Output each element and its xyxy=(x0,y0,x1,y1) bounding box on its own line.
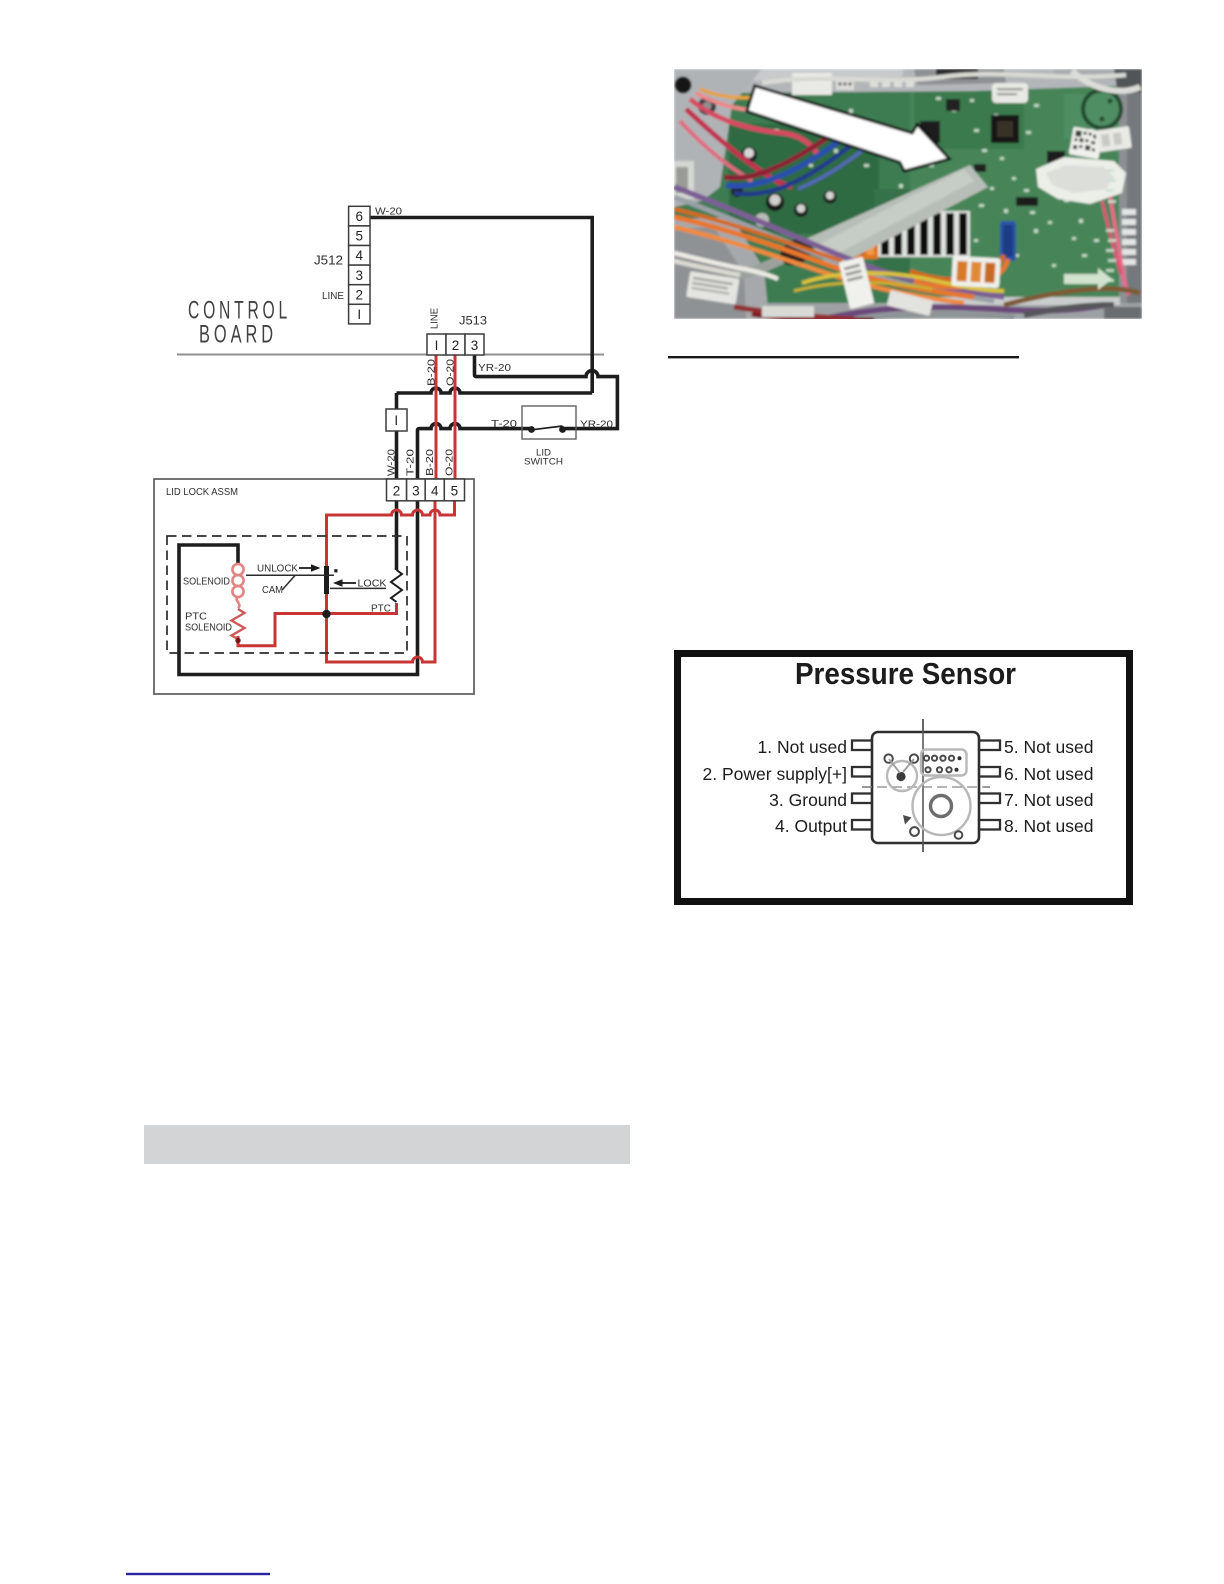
svg-text:8. Not used: 8. Not used xyxy=(1004,816,1094,836)
svg-text:3: 3 xyxy=(471,338,479,353)
svg-text:W-20: W-20 xyxy=(387,449,398,476)
svg-text:3: 3 xyxy=(412,484,420,499)
svg-text:5: 5 xyxy=(356,229,364,244)
svg-text:I: I xyxy=(435,338,439,353)
svg-text:W-20: W-20 xyxy=(375,207,402,218)
svg-text:1. Not used: 1. Not used xyxy=(758,737,848,757)
svg-text:6: 6 xyxy=(356,209,364,224)
svg-text:B-20: B-20 xyxy=(425,448,436,476)
svg-text:2: 2 xyxy=(356,287,364,302)
svg-text:4. Output: 4. Output xyxy=(775,816,847,836)
svg-text:2. Power supply[+]: 2. Power supply[+] xyxy=(703,764,847,784)
svg-text:YR-20: YR-20 xyxy=(478,362,511,374)
svg-text:YR-20: YR-20 xyxy=(580,419,613,431)
svg-text:SWITCH: SWITCH xyxy=(524,457,563,468)
svg-text:O-20: O-20 xyxy=(446,358,457,386)
svg-text:SOLENOID: SOLENOID xyxy=(183,577,230,588)
svg-text:BOARD: BOARD xyxy=(199,321,277,349)
svg-text:2: 2 xyxy=(452,338,460,353)
svg-text:UNLOCK: UNLOCK xyxy=(257,564,298,575)
svg-text:5: 5 xyxy=(451,484,459,499)
svg-text:PTC: PTC xyxy=(185,612,207,623)
svg-text:LOCK: LOCK xyxy=(358,579,387,590)
svg-text:Pressure Sensor: Pressure Sensor xyxy=(795,656,1016,691)
svg-text:5. Not used: 5. Not used xyxy=(1004,737,1094,757)
svg-text:6. Not used: 6. Not used xyxy=(1004,764,1094,784)
svg-text:I: I xyxy=(357,307,361,322)
svg-text:PTC: PTC xyxy=(371,604,391,615)
svg-text:J513: J513 xyxy=(459,315,487,327)
svg-text:LINE: LINE xyxy=(430,308,441,329)
svg-text:I: I xyxy=(394,413,398,428)
svg-text:4: 4 xyxy=(431,484,439,499)
svg-text:3: 3 xyxy=(356,268,364,283)
svg-text:T-20: T-20 xyxy=(406,448,417,476)
svg-text:LINE: LINE xyxy=(322,291,344,302)
svg-text:2: 2 xyxy=(393,484,401,499)
svg-text:7. Not used: 7. Not used xyxy=(1004,790,1094,810)
svg-text:SOLENOID: SOLENOID xyxy=(185,623,232,634)
svg-text:O-20: O-20 xyxy=(445,448,456,476)
svg-text:T-20: T-20 xyxy=(491,418,517,430)
svg-text:CAM: CAM xyxy=(262,585,283,596)
svg-text:J512: J512 xyxy=(314,254,343,268)
svg-text:LID LOCK ASSM: LID LOCK ASSM xyxy=(166,487,238,498)
svg-text:4: 4 xyxy=(356,248,364,263)
svg-text:3. Ground: 3. Ground xyxy=(769,790,847,810)
svg-text:B-20: B-20 xyxy=(427,358,438,386)
